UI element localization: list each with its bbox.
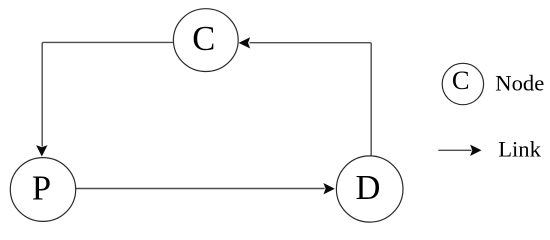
- node D circle: [336, 156, 403, 222]
- legend node circle: [442, 63, 483, 104]
- arrowhead into D (right): [323, 183, 334, 194]
- arrowhead into P (down): [36, 145, 47, 156]
- svg-text:C: C: [192, 20, 215, 58]
- svg-text:P: P: [32, 170, 51, 208]
- svg-text:C: C: [452, 65, 470, 95]
- svg-text:Link: Link: [498, 137, 541, 162]
- node P circle: [10, 158, 75, 222]
- svg-text:Node: Node: [495, 70, 544, 95]
- wire D to C (right/top path): [250, 43, 372, 156]
- svg-text:D: D: [356, 169, 381, 207]
- legend link arrow line: [438, 149, 471, 151]
- wire P to D (bottom): [76, 188, 325, 190]
- wire C to P (left path): [42, 42, 174, 146]
- legend link arrowhead: [470, 145, 481, 156]
- arrowhead into C (left): [239, 37, 251, 48]
- node C circle: [173, 9, 238, 72]
